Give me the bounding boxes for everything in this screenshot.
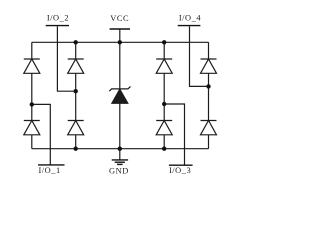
svg-text:I/O_1: I/O_1 [38, 166, 60, 175]
svg-text:I/O_4: I/O_4 [179, 13, 202, 22]
svg-text:GND: GND [109, 166, 129, 175]
svg-text:VCC: VCC [110, 14, 129, 23]
svg-text:I/O_3: I/O_3 [169, 166, 191, 175]
svg-text:I/O_2: I/O_2 [47, 14, 69, 23]
